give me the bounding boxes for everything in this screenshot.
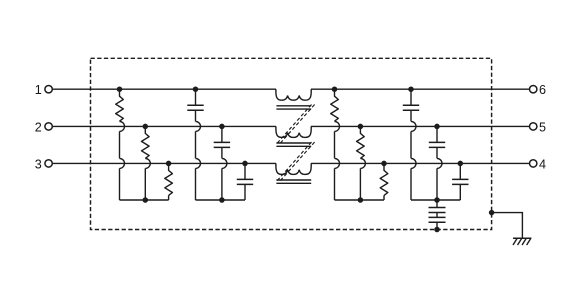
node: case to earth wire xyxy=(489,210,523,238)
series capacitors star-point to case xyxy=(429,200,446,232)
wire line 3 (terminal 3 to choke) xyxy=(52,162,276,164)
wire line 1 (choke to terminal 6) xyxy=(311,88,530,90)
capacitor (line 3, output side) xyxy=(452,161,468,200)
svg-text:1: 1 xyxy=(35,83,42,97)
resistor (line 2, input side) xyxy=(142,124,151,200)
capacitor (line 2, output side) xyxy=(429,124,445,200)
core coupling (dashed, windings 1-2) xyxy=(277,105,314,144)
terminal 5 xyxy=(530,120,547,134)
wire line 3 (choke to terminal 4) xyxy=(311,162,530,164)
star-point bus of output capacitors xyxy=(411,197,460,203)
terminal 6 xyxy=(530,83,547,97)
wire line 1 (terminal 1 to choke) xyxy=(52,88,276,90)
resistor (line 3, input side) xyxy=(165,161,173,200)
wire line 2 (terminal 2 to choke) xyxy=(52,125,276,127)
terminal 4 xyxy=(530,157,547,171)
core coupling (dashed, windings 2-3) xyxy=(277,142,314,181)
svg-text:6: 6 xyxy=(539,83,546,97)
capacitor (line 2, input side) xyxy=(214,124,230,200)
resistor (line 1, output side) xyxy=(331,86,340,200)
terminal 3 xyxy=(35,157,53,171)
choke winding L2 (line 2) with core xyxy=(276,126,311,146)
earth ground symbol xyxy=(513,238,531,245)
svg-text:5: 5 xyxy=(539,120,546,134)
choke winding L1 (line 1) with core xyxy=(276,89,311,109)
svg-text:4: 4 xyxy=(539,157,546,171)
capacitor (line 3, input side) xyxy=(237,161,253,200)
svg-text:3: 3 xyxy=(35,157,42,171)
capacitor (line 1, output side) xyxy=(403,86,419,200)
resistor (line 2, output side) xyxy=(357,124,366,200)
capacitor (line 1, input side) xyxy=(187,86,203,200)
wire line 2 (choke to terminal 5) xyxy=(311,125,530,127)
shielding case (dashed enclosure) xyxy=(91,58,492,229)
svg-text:2: 2 xyxy=(35,120,42,134)
terminal 1 xyxy=(35,83,53,97)
star-point bus of input capacitors xyxy=(196,197,246,203)
star-point bus of input resistors xyxy=(120,197,169,203)
star-point bus of output resistors xyxy=(335,197,385,203)
resistor (line 1, input side) xyxy=(116,86,125,200)
resistor (line 3, output side) xyxy=(380,161,388,200)
terminal 2 xyxy=(35,120,53,134)
choke winding L3 (line 3) with core xyxy=(276,163,311,183)
